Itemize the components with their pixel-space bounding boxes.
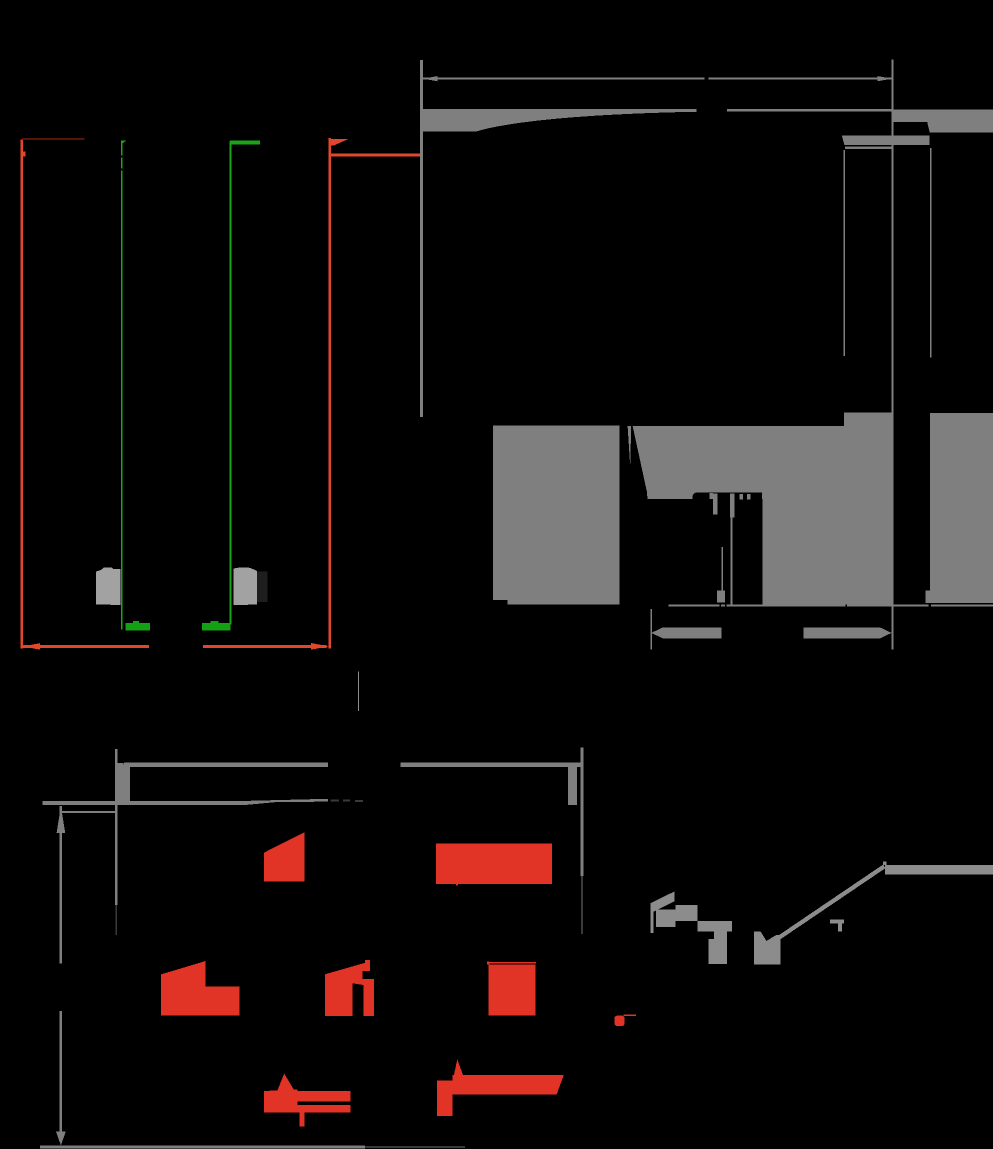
green inner line 1 <box>121 141 123 629</box>
top dimension line (thick, with text gap) <box>124 763 328 768</box>
gray rubber bung right <box>233 567 256 605</box>
vertical line x=844 <box>844 150 846 356</box>
green top bar at line2 <box>230 141 260 145</box>
faded continuation of right extension line <box>581 876 583 934</box>
left extension line <box>420 60 423 417</box>
red polarity mark: top middle quad <box>264 832 304 881</box>
right extension line (full height) <box>892 60 894 650</box>
red corner flag <box>330 139 348 146</box>
left extension line x=116 <box>115 749 117 905</box>
dimension arrowhead right <box>878 76 893 81</box>
tiny tick below rectangle <box>456 884 458 886</box>
red mark: middle-right square <box>489 965 536 1016</box>
small gray piece in slot bottom <box>926 591 930 604</box>
red bottom line left arrowhead <box>22 643 40 649</box>
gray callout: right column with V notch <box>754 931 781 964</box>
left vertical dimension line with gap <box>60 806 62 963</box>
horizontal line y=605 <box>668 605 993 607</box>
gray callout: step blocks <box>656 910 676 927</box>
up arrowhead <box>57 806 66 833</box>
red bottom line left segment <box>21 645 149 648</box>
can lid top band with curved underside <box>420 109 892 131</box>
black chip at rect bottom-left <box>493 600 508 604</box>
red dot (rivet) <box>614 1016 624 1026</box>
gray notches between glyph tops <box>710 493 713 499</box>
gray sliver between wedges <box>628 426 632 466</box>
green inner line 2 <box>230 141 232 625</box>
vertical line x=930 <box>930 148 932 358</box>
red mark: middle-center polygon <box>325 960 374 1016</box>
red mark: middle-left polygon <box>161 961 239 1016</box>
figure top band (tapers to the right) <box>43 799 329 805</box>
short line left of extension <box>60 811 117 813</box>
red line from dot <box>624 1014 637 1016</box>
gray slit 1 in text mass <box>713 494 717 515</box>
red bottom line right segment <box>203 645 327 648</box>
left thick bar <box>117 763 129 804</box>
red mark: top right rectangle <box>436 844 552 884</box>
red horizontal connector line <box>330 153 422 156</box>
right extension line x=582 <box>580 748 583 877</box>
right top block with step <box>893 112 993 133</box>
thin gray line inside mass 2 <box>731 518 733 605</box>
red arrow cluster bottom-right <box>453 1059 465 1080</box>
top dimension line <box>423 78 705 80</box>
middle small tick between figures <box>358 672 359 711</box>
green terminal pad 1 <box>125 623 150 631</box>
red left outline line <box>21 140 24 649</box>
thin gray line inside mass 1 <box>721 547 722 595</box>
small gray box inside mass <box>717 591 725 603</box>
dark shadow patch right of bung <box>257 572 268 602</box>
thin lid line right of ext line <box>892 109 993 111</box>
big gray rectangle (section) <box>493 425 620 604</box>
red nub at square top-left <box>487 961 489 964</box>
bottom slender arrow left <box>651 627 721 638</box>
green wedge at line1 top <box>121 140 126 144</box>
red tick on left line <box>23 151 25 156</box>
red hairline above square <box>490 962 537 963</box>
faint arc dashes <box>331 799 340 801</box>
gap marks on green line1 <box>121 155 123 157</box>
gray callout: small marks near diagonal <box>830 920 844 924</box>
right thick bar <box>568 767 577 805</box>
collar band <box>842 135 930 145</box>
extension line x=651 <box>651 609 653 649</box>
down arrowhead <box>56 1132 66 1146</box>
green terminal pad 2 <box>202 623 230 631</box>
gray rubber bung left <box>96 568 121 605</box>
red right outline line <box>329 138 332 648</box>
gray callout: thick bar at top right <box>885 865 993 874</box>
dark red top edge line <box>22 138 85 140</box>
lower gray field (right section) <box>633 413 892 605</box>
dimension arrowhead left <box>423 76 438 81</box>
red bottom line right arrowhead <box>311 643 329 650</box>
gray callout: diagonal leader line <box>765 865 885 948</box>
right lower gray block <box>930 413 993 603</box>
black text glyph tops over gray <box>692 492 761 499</box>
bottom extension line <box>40 1146 365 1149</box>
gray callout: slanted flag with stem <box>650 891 674 933</box>
red arrow cluster bottom-left <box>276 1074 295 1093</box>
gap in lid line (text crossing) <box>697 109 727 112</box>
bottom slender arrow right <box>804 627 892 638</box>
gray slit 2 in text mass <box>730 494 735 518</box>
thin line under collar <box>845 147 892 150</box>
